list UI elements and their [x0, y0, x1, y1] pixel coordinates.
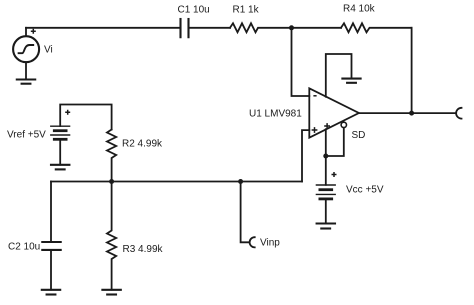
- svg-text:C2 10u: C2 10u: [8, 242, 40, 253]
- svg-text:R4 10k: R4 10k: [343, 4, 376, 15]
- svg-text:R2 4.99k: R2 4.99k: [122, 139, 163, 150]
- svg-text:C1 10u: C1 10u: [178, 5, 210, 16]
- svg-text:R1 1k: R1 1k: [233, 5, 260, 16]
- svg-text:R3 4.99k: R3 4.99k: [123, 244, 164, 255]
- svg-text:Vi: Vi: [44, 45, 53, 56]
- svg-text:Vcc +5V: Vcc +5V: [346, 185, 384, 196]
- svg-text:Vref +5V: Vref +5V: [7, 129, 46, 140]
- svg-text:SD: SD: [352, 130, 366, 141]
- svg-text:Vinp: Vinp: [260, 238, 280, 249]
- svg-text:U1 LMV981: U1 LMV981: [249, 109, 302, 120]
